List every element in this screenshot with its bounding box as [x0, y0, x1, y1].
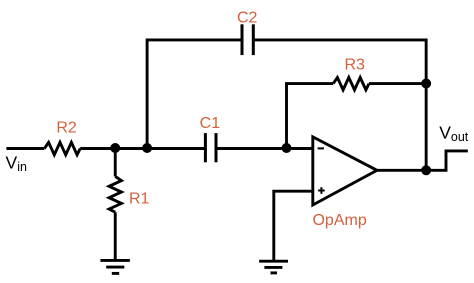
svg-text:C1: C1	[200, 115, 221, 132]
node junction R3 / right rail	[421, 79, 431, 89]
op-amp inverting pin minus sign	[318, 147, 324, 149]
op-amp U1 triangle	[313, 137, 377, 205]
wire Vin input	[6, 147, 44, 150]
wire R3 branch vertical and left lead	[287, 84, 334, 150]
svg-text:R2: R2	[56, 119, 77, 136]
svg-text:Vout: Vout	[439, 123, 469, 145]
svg-text:R3: R3	[344, 57, 365, 74]
node junction output / right rail	[421, 165, 431, 175]
svg-text:OpAmp: OpAmp	[312, 212, 366, 229]
ground below op-amp plus input	[259, 261, 288, 273]
wire C2 branch vertical and top rail left of C2	[147, 40, 242, 150]
resistor R1	[109, 176, 121, 212]
wire non-inverting input horizontal and vertical to ground	[274, 191, 313, 261]
node junction C2 branch	[142, 143, 152, 153]
wire R3 right lead	[369, 82, 426, 85]
resistor R3	[333, 78, 369, 90]
op-amp non-inverting pin plus sign	[318, 187, 325, 194]
svg-text:Vin: Vin	[6, 152, 27, 174]
wire R2 to C1	[80, 147, 205, 150]
capacitor C1	[205, 133, 216, 162]
capacitor C2	[242, 24, 253, 55]
svg-text:R1: R1	[129, 191, 150, 208]
node junction inverting input / R3	[282, 143, 292, 153]
wire C1 to op-amp inverting input	[216, 147, 313, 150]
ground below R1	[100, 260, 129, 273]
wire R1 bottom lead	[114, 212, 117, 260]
resistor R2	[44, 142, 80, 154]
wire R1 top lead	[114, 149, 117, 177]
node junction R1 branch	[110, 143, 120, 153]
svg-text:C2: C2	[237, 10, 258, 27]
wire op-amp output with step to Vout terminal	[377, 151, 468, 170]
wire top rail right of C2 and right rail vertical	[253, 40, 426, 170]
